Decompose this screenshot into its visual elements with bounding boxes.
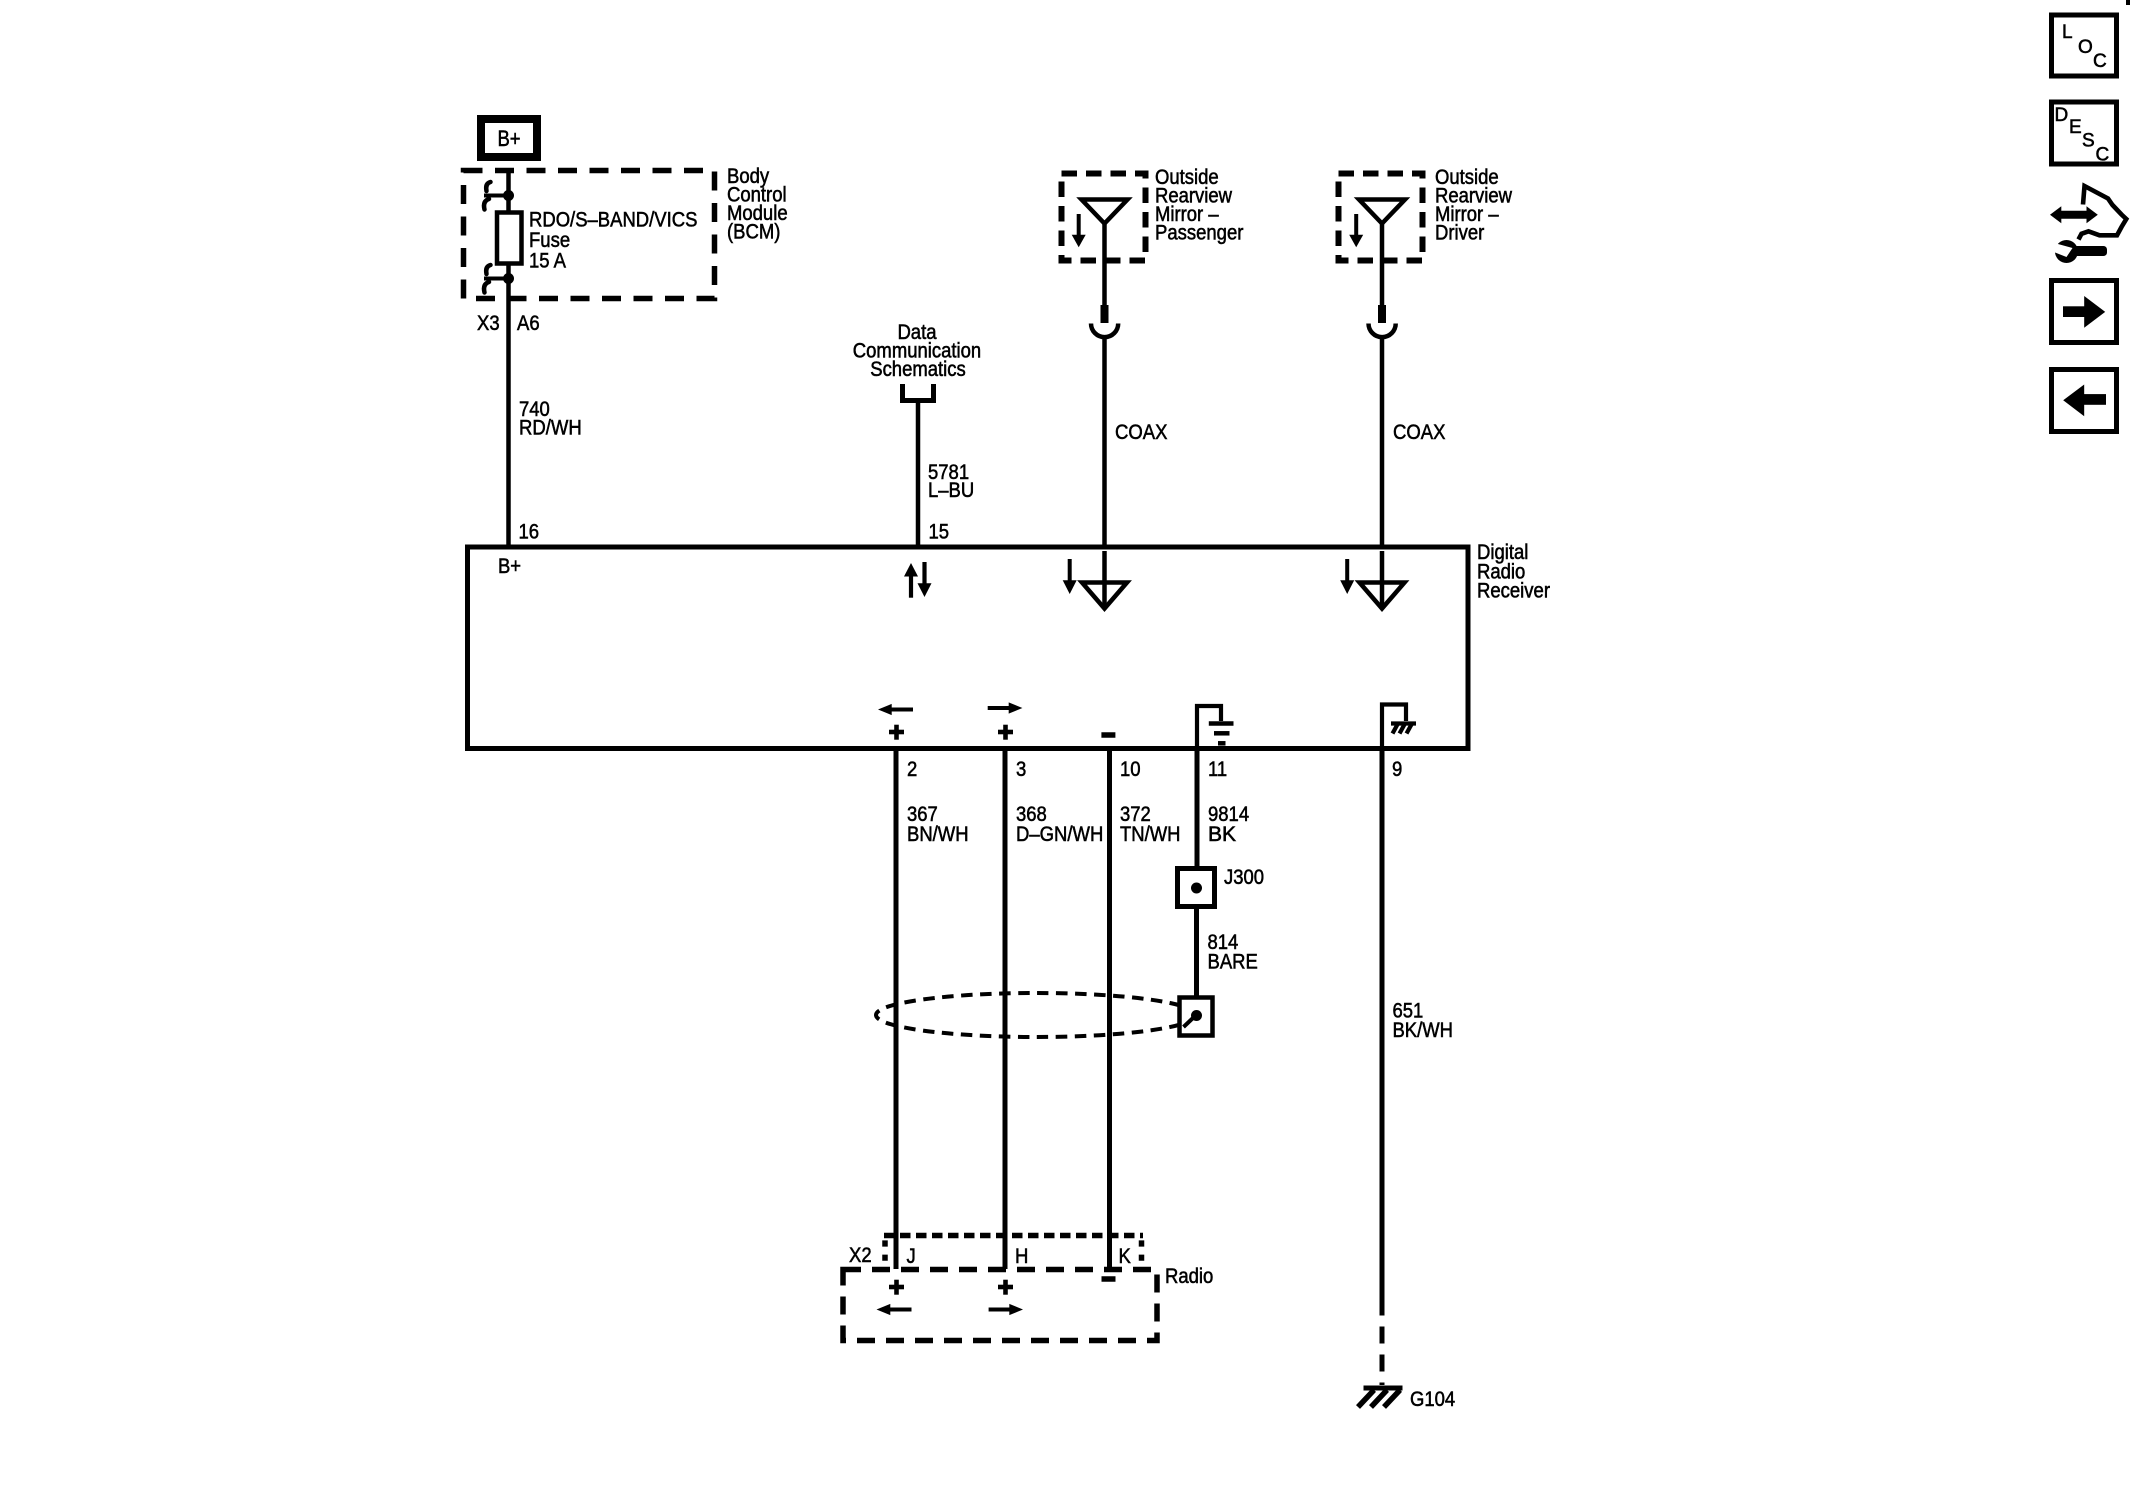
svg-text:C: C	[2093, 51, 2107, 72]
svg-text:J: J	[907, 1245, 916, 1268]
coax connector (driver): pin and socket	[1368, 305, 1395, 337]
internal antenna symbol (driver input)	[1360, 551, 1405, 609]
splice J300	[1178, 869, 1215, 907]
wire label 651 BK/WH	[1393, 1000, 1454, 1043]
pin 2 label	[907, 758, 917, 781]
svg-text:X3: X3	[477, 312, 500, 335]
svg-text:COAX: COAX	[1115, 421, 1167, 444]
sidebar service-tool icon (double arrow)	[2050, 206, 2098, 223]
svg-text:L–BU: L–BU	[928, 479, 974, 502]
antenna module dashed box (driver)	[1339, 174, 1423, 261]
svg-text:Receiver: Receiver	[1477, 580, 1550, 603]
svg-text:J300: J300	[1224, 866, 1264, 889]
radio internal - mark (K)	[1102, 1276, 1116, 1282]
radio internal left arrow	[877, 1304, 912, 1315]
wire 651 BK/WH (pin 9 to G104) solid part	[1380, 751, 1385, 1316]
internal down arrow (passenger input)	[1063, 559, 1077, 594]
ground G104 chassis symbol	[1358, 1388, 1403, 1407]
radio internal + mark (H)	[998, 1280, 1013, 1295]
pin 16 label	[519, 521, 540, 544]
sidebar DESC button	[2052, 102, 2117, 166]
svg-text:RD/WH: RD/WH	[519, 417, 582, 440]
connector terminal (bottom, inside BCM)	[484, 265, 514, 293]
internal left audio arrow (pin 2)	[878, 704, 913, 715]
wire label 740 RD/WH	[519, 398, 582, 440]
pin H label	[1015, 1245, 1028, 1268]
wire 367 BN/WH (pin 2 to radio J)	[894, 751, 899, 1269]
svg-text:B+: B+	[498, 555, 521, 578]
wire label 9814 BK	[1208, 803, 1249, 846]
svg-text:2: 2	[907, 758, 917, 781]
svg-text:Radio: Radio	[1165, 1265, 1213, 1288]
svg-text:BK: BK	[1208, 823, 1236, 846]
svg-text:X2: X2	[849, 1244, 872, 1267]
internal down arrow (driver input)	[1340, 559, 1354, 594]
U1 Digital Radio Receiver box	[468, 547, 1469, 749]
svg-text:Driver: Driver	[1435, 222, 1484, 245]
connector X2 label	[849, 1244, 872, 1267]
internal antenna symbol (passenger input)	[1082, 551, 1127, 609]
pin 9 label	[1392, 758, 1402, 781]
Radio name label	[1165, 1265, 1213, 1288]
svg-text:TN/WH: TN/WH	[1120, 823, 1181, 846]
internal earth ground symbol (pin 11)	[1197, 706, 1234, 748]
wire label COAX (passenger)	[1115, 421, 1167, 444]
internal data up/down arrows (pin 15)	[904, 562, 932, 598]
power symbol B+	[481, 119, 537, 157]
svg-text:COAX: COAX	[1393, 421, 1445, 444]
radio internal right arrow	[989, 1304, 1023, 1315]
wire label 814 BARE	[1208, 931, 1258, 974]
svg-text:(BCM): (BCM)	[727, 221, 780, 244]
splice label J300	[1224, 866, 1264, 889]
fuse RDO/S-BAND/VICS 15 A	[497, 213, 522, 264]
svg-text:15 A: 15 A	[529, 250, 566, 273]
wire 9814 BK (pin 11 to J300)	[1195, 751, 1200, 870]
sidebar previous-page arrow button	[2052, 370, 2117, 432]
shield terminal box	[1180, 998, 1213, 1036]
Radio dashed box	[843, 1270, 1157, 1341]
wire 372 TN/WH (pin 10 to radio K)	[1107, 751, 1112, 1269]
svg-text:B+: B+	[497, 126, 520, 151]
svg-text:3: 3	[1016, 758, 1026, 781]
svg-text:E: E	[2069, 117, 2082, 138]
internal - mark (pin 10)	[1101, 732, 1115, 738]
svg-text:L: L	[2062, 22, 2073, 43]
svg-text:A6: A6	[517, 312, 540, 335]
pin 11 label	[1208, 758, 1227, 781]
pin J label	[907, 1245, 916, 1268]
Digital Radio Receiver name label	[1477, 541, 1550, 603]
wire 368 D-GN/WH (pin 3 to radio H)	[1003, 751, 1008, 1269]
internal right audio arrow (pin 3)	[988, 702, 1023, 713]
wire 5781 L-BU to pin 15	[916, 400, 921, 548]
wire COAX (passenger)	[1102, 337, 1107, 548]
svg-text:16: 16	[519, 521, 540, 544]
internal + mark (pin 2)	[889, 725, 904, 740]
internal chassis ground symbol (pin 9)	[1382, 705, 1416, 749]
svg-text:10: 10	[1120, 758, 1141, 781]
svg-text:S: S	[2082, 131, 2095, 152]
down arrow inside driver antenna box	[1349, 214, 1363, 247]
internal B+ pin name	[498, 555, 521, 578]
shield ellipse around audio wires	[876, 993, 1196, 1037]
svg-text:9: 9	[1392, 758, 1402, 781]
wire label COAX (driver)	[1393, 421, 1445, 444]
off-page bracket (Data Communication Schematics)	[903, 384, 934, 401]
antenna label (driver)	[1435, 166, 1513, 245]
wire 814 BARE (J300 to shield)	[1194, 907, 1199, 998]
antenna label (passenger)	[1155, 166, 1243, 245]
coax connector (passenger): pin and socket	[1091, 305, 1118, 337]
down arrow inside passenger antenna box	[1072, 214, 1086, 247]
antenna module dashed box (passenger)	[1062, 174, 1146, 261]
sidebar service-tool icon (panel outline)	[2079, 186, 2127, 240]
svg-text:K: K	[1119, 1245, 1131, 1268]
sidebar LOC button	[2052, 15, 2117, 76]
wire 740 RD/WH from B+ through fuse to pin 16	[506, 168, 511, 548]
svg-text:11: 11	[1208, 758, 1227, 781]
wire label 368 D-GN/WH	[1016, 803, 1103, 846]
wire label 5781 L-BU	[928, 461, 974, 502]
pin 10 label	[1120, 758, 1141, 781]
connector terminal (top, inside BCM)	[484, 182, 514, 210]
node Data Communication Schematics label	[853, 321, 981, 381]
wire COAX (driver)	[1380, 337, 1385, 548]
antenna symbol (passenger mirror)	[1082, 200, 1128, 583]
svg-text:D–GN/WH: D–GN/WH	[1016, 823, 1103, 846]
internal + mark (pin 3)	[998, 725, 1013, 740]
wire label 372 TN/WH	[1120, 803, 1181, 846]
antenna symbol (driver mirror)	[1359, 200, 1405, 306]
svg-text:Passenger: Passenger	[1155, 222, 1243, 245]
radio internal + mark (J)	[889, 1280, 904, 1295]
svg-text:Schematics: Schematics	[870, 358, 966, 381]
svg-text:D: D	[2055, 105, 2069, 126]
fuse value label	[529, 209, 697, 273]
Body Control Module (BCM) dashed box	[464, 171, 715, 299]
svg-text:H: H	[1015, 1245, 1028, 1268]
wire 651 dashed part to ground	[1380, 1327, 1385, 1386]
page corner mark	[2126, 0, 2130, 5]
wire label 367 BN/WH	[907, 803, 969, 846]
pin 15 label	[929, 521, 950, 544]
svg-text:15: 15	[929, 521, 950, 544]
node X3 | A6 connector labels	[477, 312, 540, 335]
svg-text:C: C	[2096, 145, 2110, 166]
ground label G104	[1410, 1388, 1455, 1411]
sidebar service-tool icon (wrench)	[2053, 240, 2108, 263]
svg-text:BARE: BARE	[1208, 951, 1258, 974]
svg-text:BK/WH: BK/WH	[1393, 1019, 1454, 1042]
svg-text:O: O	[2078, 37, 2093, 58]
sidebar next-page arrow button	[2052, 281, 2117, 343]
svg-text:G104: G104	[1410, 1388, 1455, 1411]
svg-text:BN/WH: BN/WH	[907, 823, 969, 846]
pin 3 label	[1016, 758, 1026, 781]
BCM label "Body Control Module (BCM)"	[727, 165, 788, 244]
radio connector strip X2 (dotted)	[884, 1236, 1143, 1263]
pin K label	[1119, 1245, 1131, 1268]
